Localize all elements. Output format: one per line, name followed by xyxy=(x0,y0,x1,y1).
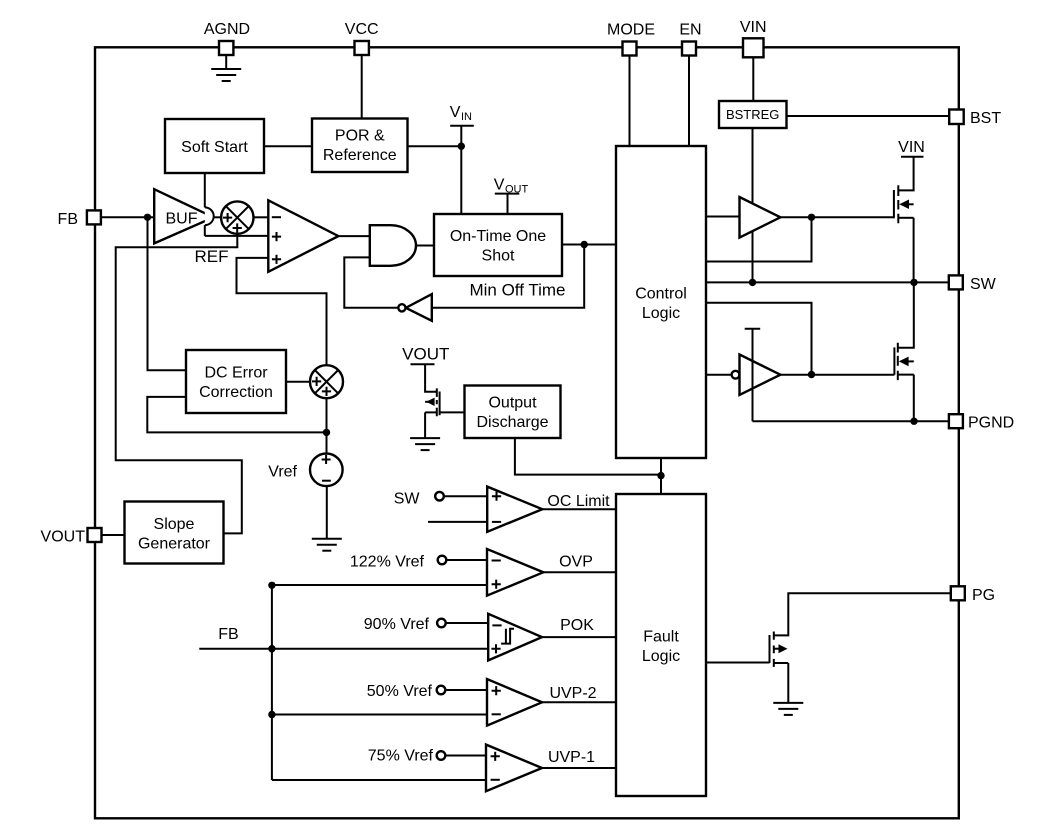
svg-text:Fault: Fault xyxy=(643,628,679,645)
node FB dist top xyxy=(268,582,275,589)
outer border xyxy=(95,47,959,818)
box On-Time One Shot xyxy=(434,214,562,276)
svg-text:OC Limit: OC Limit xyxy=(547,493,610,510)
svg-text:UVP-1: UVP-1 xyxy=(548,749,595,766)
wire FB to BUF xyxy=(101,216,154,218)
summing junction S1 xyxy=(221,201,253,233)
svg-text:V: V xyxy=(450,104,461,121)
svg-text:AGND: AGND xyxy=(204,21,250,38)
pin VCC xyxy=(345,21,379,55)
pin FB xyxy=(58,210,101,228)
wire DC Error output to multiplier xyxy=(286,381,310,383)
wire S1 to comparator minus xyxy=(253,216,268,218)
pin VIN xyxy=(740,19,767,57)
transistor Q3 (output discharge) xyxy=(425,388,440,416)
wire BSTREG down through driver to SW line xyxy=(752,128,754,282)
pin VOUT xyxy=(41,528,102,546)
wire VOUT bar to discharge fet drain xyxy=(425,364,437,392)
label VIN (high-side supply) xyxy=(898,139,925,157)
ground Vref xyxy=(312,539,342,551)
node driver U2 output junction xyxy=(808,214,815,221)
wire inverter output to AND gate lower input xyxy=(344,257,398,307)
comparator UVP-1 xyxy=(486,745,542,792)
wire POR to VIN node xyxy=(408,145,462,147)
wire OVP output to Fault Logic xyxy=(543,571,616,573)
wire VIN node to On-Time One Shot xyxy=(460,146,462,214)
svg-text:90% Vref: 90% Vref xyxy=(364,616,430,633)
svg-text:VIN: VIN xyxy=(898,139,925,156)
pin PGND xyxy=(949,414,1014,432)
wire OC comparator minus input xyxy=(428,521,487,523)
comparator UVP-2 xyxy=(487,679,542,726)
svg-text:MODE: MODE xyxy=(607,22,655,39)
wire 75% terminal to UVP-1 comparator xyxy=(446,755,486,757)
wire 122% terminal to OVP comparator xyxy=(446,559,487,561)
svg-text:PG: PG xyxy=(972,587,995,604)
svg-text:Slope: Slope xyxy=(154,516,195,533)
wire FB to UVP-2 minus input xyxy=(272,714,487,716)
wire MODE to Control Logic xyxy=(629,56,631,147)
pin BST xyxy=(949,110,1001,127)
wire POK output to Fault Logic xyxy=(542,636,616,638)
wire PG fet drain to PG pin xyxy=(774,593,951,635)
wire discharge fet gate to Output Discharge box xyxy=(440,411,465,413)
wire low-side source to PGND xyxy=(913,375,915,422)
wire on-time output to inverter input xyxy=(432,245,584,308)
box Control Logic xyxy=(616,146,706,458)
wire Vref to ground xyxy=(326,486,328,538)
comparator POK xyxy=(488,614,542,661)
op-amp BUF xyxy=(154,189,213,243)
wire driver output feedback to Control Logic xyxy=(706,217,812,261)
svg-text:VIN: VIN xyxy=(740,19,767,36)
node FB dist mid xyxy=(268,645,275,652)
svg-text:V: V xyxy=(494,177,505,194)
wire UVP-1 output to Fault Logic xyxy=(542,767,616,769)
svg-text:EN: EN xyxy=(679,22,701,39)
wire REF from slope generator to S1 bottom xyxy=(116,233,242,533)
node PGND junction xyxy=(910,418,917,425)
svg-text:PGND: PGND xyxy=(968,415,1014,432)
svg-text:IN: IN xyxy=(461,111,472,123)
wire VOUT pin to Slope Generator xyxy=(102,534,125,536)
svg-text:VOUT: VOUT xyxy=(402,345,449,364)
node 75% Vref terminal xyxy=(368,748,446,765)
node SW junction right xyxy=(910,279,917,286)
wire VIN to BSTREG xyxy=(752,57,754,101)
svg-text:VOUT: VOUT xyxy=(41,529,86,546)
wire SW terminal to OC comparator xyxy=(444,495,487,497)
wire AND to On-Time box xyxy=(416,245,435,247)
comparator OVP xyxy=(487,549,543,596)
label VOUT (discharge fet) xyxy=(402,345,449,365)
node VOUT (V_OUT stub) xyxy=(494,177,529,215)
wire PGND net xyxy=(753,420,949,422)
node 50% Vref terminal xyxy=(367,683,446,700)
transistor Q2 (low side) xyxy=(894,343,913,380)
wire Output Discharge to fault node xyxy=(515,438,661,475)
node VIN (V_IN stub) xyxy=(450,104,474,150)
driver U2 (high side) xyxy=(740,197,781,238)
svg-text:Shot: Shot xyxy=(482,248,515,265)
wire PG fet source to ground xyxy=(787,663,789,703)
transistor Q4 (power good) xyxy=(770,632,789,667)
AND gate xyxy=(370,225,416,266)
svg-text:SW: SW xyxy=(394,490,421,507)
wire VCC to POR xyxy=(361,55,363,119)
svg-text:POK: POK xyxy=(560,617,594,634)
svg-text:Output: Output xyxy=(488,395,537,412)
wire S2 bottom to Vref node xyxy=(326,398,328,454)
wire comparator to AND gate xyxy=(338,235,369,237)
wire VIN bar to high-side drain xyxy=(898,157,913,191)
node FB dist lower xyxy=(268,711,275,718)
box BSTREG xyxy=(719,101,787,128)
inverter (min off time) xyxy=(398,294,432,321)
box DC Error Correction xyxy=(186,350,286,413)
pin SW xyxy=(949,275,997,293)
wire 50% terminal to UVP-2 comparator xyxy=(445,689,487,691)
wire SW to low-side drain xyxy=(898,282,914,347)
wire FB to OVP plus input xyxy=(272,584,487,586)
node 122% Vref terminal xyxy=(350,554,446,571)
node SW sense terminal xyxy=(394,490,444,507)
svg-text:Generator: Generator xyxy=(138,535,211,552)
svg-text:Soft Start: Soft Start xyxy=(181,139,248,156)
ground discharge fet xyxy=(410,438,440,450)
wire driver U2 output to high-side gate xyxy=(780,216,894,218)
box Soft Start xyxy=(165,119,264,173)
svg-text:POR &: POR & xyxy=(335,128,385,145)
supply stub of driver U3 xyxy=(745,329,761,422)
summing junction S2 xyxy=(310,365,343,398)
comparator U1 xyxy=(268,200,338,271)
svg-text:BSTREG: BSTREG xyxy=(726,107,779,122)
wire DC Error input 2 feedback xyxy=(147,397,326,433)
pin MODE xyxy=(607,22,655,56)
svg-text:OVP: OVP xyxy=(559,553,593,570)
wire Soft Start to comparator plus xyxy=(205,235,268,237)
ground AGND xyxy=(211,55,241,81)
wire slope path to comparator plus2 xyxy=(237,258,327,365)
svg-text:Correction: Correction xyxy=(199,384,273,401)
box POR & Reference xyxy=(312,119,408,173)
node driver U3 output junction xyxy=(808,371,815,378)
svg-text:Vref: Vref xyxy=(268,464,297,481)
svg-text:BST: BST xyxy=(970,110,1001,127)
node S2-Vref junction xyxy=(323,429,330,436)
box Slope Generator xyxy=(125,502,224,564)
svg-text:Min Off Time: Min Off Time xyxy=(469,281,565,300)
svg-text:Control: Control xyxy=(635,285,687,302)
pin PG xyxy=(951,586,995,604)
svg-text:Reference: Reference xyxy=(323,147,397,164)
wire Control Logic to low-side gate node xyxy=(706,303,812,375)
ground PG fet xyxy=(773,703,803,715)
wire FB vertical to DC Error input 1 xyxy=(148,217,187,370)
node FB junction xyxy=(144,214,151,221)
svg-text:Logic: Logic xyxy=(642,305,680,322)
svg-text:REF: REF xyxy=(195,247,229,266)
svg-text:On-Time One: On-Time One xyxy=(450,228,546,245)
wire driver U3 output to low-side gate xyxy=(780,374,894,376)
wire FB to UVP-1 minus input xyxy=(272,779,486,781)
svg-text:SW: SW xyxy=(970,276,997,293)
wire BUF output to summing junction xyxy=(215,216,222,218)
pin EN xyxy=(679,22,701,56)
voltage source Vref xyxy=(268,454,342,487)
svg-text:FB: FB xyxy=(58,211,78,228)
svg-text:Discharge: Discharge xyxy=(476,414,548,431)
node on-time output junction xyxy=(581,241,588,248)
transistor Q1 (high side) xyxy=(894,185,914,223)
wire Control Logic to driver U3 input xyxy=(706,374,732,376)
wire Fault Logic to PG fet gate xyxy=(706,662,770,664)
comparator OC xyxy=(487,487,542,532)
wire Soft Start output hop over FB wire xyxy=(205,173,214,236)
svg-text:BUF: BUF xyxy=(166,210,198,227)
svg-text:VCC: VCC xyxy=(345,21,379,38)
wire OC output to Fault Logic xyxy=(542,508,616,510)
wire Control Logic to driver U2 xyxy=(706,216,740,218)
svg-text:UVP-2: UVP-2 xyxy=(549,685,596,702)
wire Soft Start to POR xyxy=(264,145,312,147)
wire On-Time output to Control Logic xyxy=(562,244,616,246)
box Output Discharge xyxy=(465,386,561,439)
box Fault Logic xyxy=(616,494,706,796)
svg-text:50% Vref: 50% Vref xyxy=(367,683,433,700)
wire FB distribution vertical xyxy=(271,585,273,780)
wire UVP-2 output to Fault Logic xyxy=(542,701,616,703)
driver U3 (low side) xyxy=(732,355,781,395)
wire high-side source to SW xyxy=(913,218,915,283)
node 90% Vref terminal xyxy=(364,616,446,633)
svg-text:75% Vref: 75% Vref xyxy=(368,748,434,765)
svg-text:Logic: Logic xyxy=(642,648,680,665)
svg-text:DC Error: DC Error xyxy=(204,364,268,381)
wire EN to Control Logic xyxy=(688,56,690,147)
wire BSTREG to BST pin xyxy=(787,115,950,117)
node fault junction xyxy=(657,472,664,479)
wire SW net xyxy=(706,281,949,283)
svg-text:122% Vref: 122% Vref xyxy=(350,554,425,571)
wire 90% terminal to POK comparator xyxy=(446,622,489,624)
wire discharge fet source to ground xyxy=(424,412,426,438)
wire FB input to POK plus xyxy=(199,648,488,650)
node SW junction left xyxy=(749,279,756,286)
pin AGND xyxy=(204,21,250,55)
svg-text:FB: FB xyxy=(218,626,238,643)
wire Control Logic to Fault Logic xyxy=(660,458,662,494)
